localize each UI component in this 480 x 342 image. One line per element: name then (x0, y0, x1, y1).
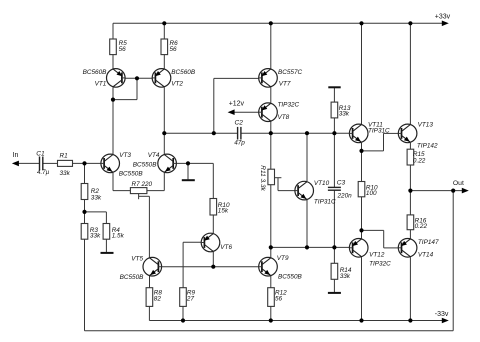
svg-text:VT10: VT10 (314, 180, 330, 187)
svg-text:33k: 33k (60, 170, 71, 177)
svg-text:C1: C1 (36, 151, 45, 158)
svg-text:56: 56 (170, 46, 178, 53)
svg-text:27: 27 (186, 295, 195, 302)
svg-text:33k: 33k (339, 111, 350, 118)
svg-text:0.22: 0.22 (413, 157, 426, 164)
svg-text:BC550B: BC550B (120, 274, 145, 281)
svg-text:+12v: +12v (229, 101, 245, 108)
svg-text:VT1: VT1 (95, 81, 107, 88)
svg-text:4.7µ: 4.7µ (37, 169, 50, 176)
svg-text:VT7: VT7 (279, 80, 291, 87)
svg-text:VT2: VT2 (171, 81, 183, 88)
svg-text:33k: 33k (91, 195, 102, 202)
svg-text:VT5: VT5 (131, 256, 143, 263)
svg-text:BC550B: BC550B (133, 161, 158, 168)
svg-text:220n: 220n (337, 192, 353, 199)
svg-text:VT8: VT8 (278, 114, 290, 121)
svg-text:In: In (13, 152, 19, 159)
svg-text:0.22: 0.22 (415, 223, 428, 230)
svg-text:R7 220: R7 220 (132, 181, 153, 188)
svg-text:BC557C: BC557C (278, 69, 303, 76)
svg-text:TIP32C: TIP32C (278, 102, 300, 109)
svg-text:BC560B: BC560B (171, 69, 196, 76)
svg-text:TIP147: TIP147 (418, 239, 439, 246)
svg-text:100: 100 (366, 190, 377, 197)
svg-text:C3: C3 (337, 179, 346, 186)
svg-text:47p: 47p (234, 140, 245, 147)
svg-text:R1: R1 (60, 152, 69, 159)
svg-text:33k: 33k (90, 233, 101, 240)
svg-text:TIP142: TIP142 (417, 143, 438, 150)
svg-text:TIP32C: TIP32C (369, 261, 391, 268)
svg-text:33k: 33k (340, 273, 351, 280)
svg-text:82: 82 (154, 295, 162, 302)
svg-text:R11 3.3k: R11 3.3k (259, 165, 266, 191)
svg-text:-33v: -33v (435, 311, 449, 318)
svg-text:BC550B: BC550B (119, 170, 144, 177)
svg-text:TIP31C: TIP31C (368, 128, 390, 135)
svg-text:+33v: +33v (435, 13, 451, 20)
svg-text:Out: Out (453, 180, 464, 187)
svg-text:BC560B: BC560B (83, 69, 108, 76)
svg-text:56: 56 (275, 295, 283, 302)
svg-text:56: 56 (119, 46, 127, 53)
svg-text:VT4: VT4 (148, 152, 160, 159)
svg-text:15k: 15k (218, 208, 229, 215)
svg-text:VT6: VT6 (220, 244, 232, 251)
svg-text:VT9: VT9 (277, 255, 289, 262)
svg-text:C2: C2 (235, 120, 244, 127)
svg-text:VT3: VT3 (119, 152, 131, 159)
svg-text:TIP31C: TIP31C (314, 199, 336, 206)
svg-text:VT14: VT14 (418, 251, 434, 258)
svg-text:1.5k: 1.5k (112, 233, 125, 240)
svg-text:VT13: VT13 (418, 122, 434, 129)
svg-text:BC550B: BC550B (278, 274, 303, 281)
svg-text:VT12: VT12 (369, 251, 385, 258)
